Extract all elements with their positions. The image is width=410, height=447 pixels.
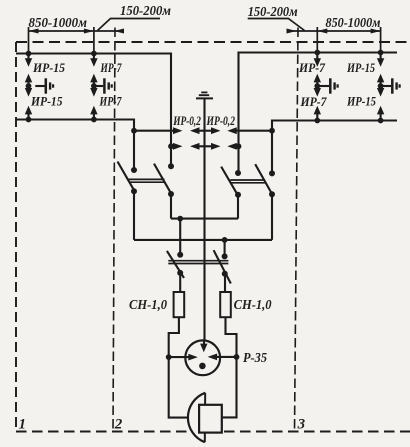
svg-text:ИР-15: ИР-15: [346, 61, 375, 75]
svg-text:ИР-0,2: ИР-0,2: [206, 114, 235, 128]
svg-text:ИР-15: ИР-15: [30, 95, 62, 109]
svg-text:СН-1,0: СН-1,0: [234, 297, 272, 312]
svg-text:ИР-7: ИР-7: [298, 61, 326, 75]
svg-text:ИР-7: ИР-7: [100, 61, 122, 75]
svg-text:850-1000м: 850-1000м: [29, 16, 88, 31]
svg-text:3: 3: [297, 416, 306, 432]
svg-text:Р-35: Р-35: [243, 350, 267, 365]
svg-text:2: 2: [114, 417, 123, 433]
svg-text:ИР-15: ИР-15: [346, 95, 376, 109]
svg-text:СН-1,0: СН-1,0: [129, 297, 167, 312]
svg-text:ИР-7: ИР-7: [99, 95, 122, 109]
svg-text:150-200м: 150-200м: [120, 4, 171, 19]
svg-text:ИР-15: ИР-15: [32, 61, 65, 75]
svg-text:ИР-0,2: ИР-0,2: [172, 114, 200, 128]
svg-text:ИР-7: ИР-7: [300, 95, 328, 109]
svg-text:850-1000м: 850-1000м: [326, 16, 381, 31]
svg-text:1: 1: [19, 417, 27, 433]
svg-text:150-200м: 150-200м: [248, 5, 298, 20]
